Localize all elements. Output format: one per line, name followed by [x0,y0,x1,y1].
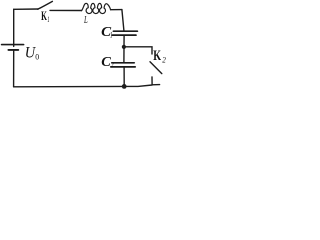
wire K1 contact to inductor [50,9,82,11]
svg-text:2: 2 [162,55,166,65]
capacitor C1 top plate [113,30,137,32]
switch K1 blade [38,1,53,9]
svg-text:1: 1 [110,29,113,39]
capacitor C2 bottom plate [111,66,135,68]
node B junction dot [122,84,127,89]
wire bottom rail [14,85,153,87]
svg-text:K: K [153,48,161,64]
svg-text:L: L [83,15,88,26]
node A junction dot [122,45,126,49]
battery U0 short plate [8,49,18,51]
wire top-left horizontal [14,8,39,10]
inductor L [82,3,111,13]
wire node A to K2 branch [124,47,152,54]
svg-text:1: 1 [47,15,49,24]
svg-text:0: 0 [35,53,39,62]
wire C2 bottom lead [123,67,125,86]
capacitor C1 bottom plate [112,34,136,36]
svg-text:K: K [41,9,47,23]
switch K2 blade [150,62,162,74]
battery U0 long plate [2,44,24,46]
wire C1 bottom lead to node A [123,36,125,47]
wire node A to C2 top lead [123,47,125,62]
svg-text:2: 2 [111,59,114,69]
wire K2 bottom contact [152,77,160,85]
wire C1 top lead (vertical) [122,10,124,31]
wire left rail lower [13,50,15,87]
capacitor C2 top plate [112,62,134,64]
wire left rail upper [13,9,15,46]
wire inductor to top-right corner [111,9,122,11]
